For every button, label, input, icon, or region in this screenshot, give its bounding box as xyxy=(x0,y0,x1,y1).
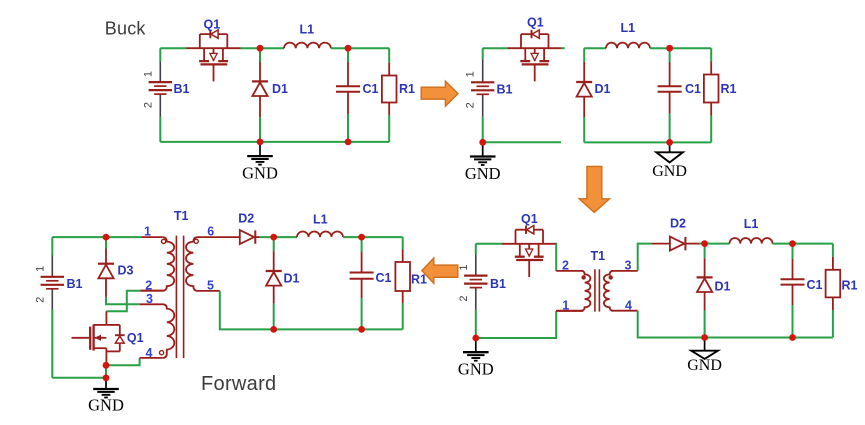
diode D2 xyxy=(240,230,256,244)
transistor Q1 xyxy=(502,226,556,278)
capacitor C1 xyxy=(781,279,805,284)
svg-text:3: 3 xyxy=(625,258,632,272)
node OUT2 junction xyxy=(789,240,796,247)
wire node SW to D1 xyxy=(259,48,261,61)
battery B1 xyxy=(41,256,64,310)
svg-text:B1: B1 xyxy=(490,277,506,291)
svg-text:GND: GND xyxy=(652,163,687,180)
capacitor C1 top lead xyxy=(347,62,349,86)
resistor R1 top lead xyxy=(388,63,390,76)
phase dot primary xyxy=(581,275,585,279)
wire source to pin 4 xyxy=(106,358,140,365)
resistor R1 xyxy=(395,262,410,291)
wire right rail bottom xyxy=(388,115,390,141)
wire C1 top connection xyxy=(669,48,671,62)
svg-text:Q1: Q1 xyxy=(127,331,144,345)
svg-text:C1: C1 xyxy=(376,271,392,285)
svg-text:D2: D2 xyxy=(238,211,254,225)
node SW junction xyxy=(257,45,264,52)
battery B1 xyxy=(149,61,172,116)
diode D2 cathode lead xyxy=(255,236,259,238)
resistor R1 xyxy=(826,270,841,298)
svg-text:Q1: Q1 xyxy=(521,212,538,226)
resistor R1 bottom lead xyxy=(832,297,834,310)
capacitor C1 xyxy=(336,86,360,91)
wire D2 to node SW3 xyxy=(260,236,297,238)
svg-text:B1: B1 xyxy=(497,83,513,97)
wire D1 to bottom rail 3 xyxy=(273,304,275,330)
wire output-half right rail bottom xyxy=(710,116,712,143)
svg-text:1: 1 xyxy=(144,225,151,239)
svg-text:1: 1 xyxy=(458,265,470,271)
wire L1 to node OUT3 xyxy=(343,236,403,238)
pin 1 lead xyxy=(141,236,162,238)
wire node OUT to C1 xyxy=(347,48,349,62)
junction source-half ground xyxy=(479,139,486,146)
wire C1 to bottom rail 3 xyxy=(361,298,363,329)
diode D1 xyxy=(266,271,282,286)
inductor L1 xyxy=(297,232,343,238)
svg-text:L1: L1 xyxy=(313,212,328,226)
capacitor C1 top lead xyxy=(669,62,671,86)
resistor R1 top lead xyxy=(832,257,834,270)
inductor L1 xyxy=(730,238,773,244)
svg-text:Forward: Forward xyxy=(201,373,276,395)
pin 1 lead xyxy=(556,310,583,312)
inductor L1 xyxy=(284,43,331,49)
svg-text:4: 4 xyxy=(625,299,632,313)
svg-text:GND: GND xyxy=(88,396,124,415)
wire forward right rail bottom xyxy=(402,303,404,329)
wire left rail bottom xyxy=(159,117,161,142)
diode D2 xyxy=(670,237,686,251)
diode D1 top lead xyxy=(273,251,275,270)
battery B1 xyxy=(464,255,487,310)
diode D3 bottom lead xyxy=(105,278,107,297)
diode D1 bottom lead xyxy=(273,285,275,303)
node SW2 junction xyxy=(701,240,708,247)
ground GND secondary xyxy=(691,338,718,359)
svg-text:B1: B1 xyxy=(67,277,83,291)
ground GND output half xyxy=(656,142,683,162)
wire source to ground node xyxy=(105,365,107,378)
wire forward left rail top xyxy=(51,237,53,255)
diode D1 xyxy=(697,277,713,292)
wire forward left rail bottom xyxy=(51,310,53,378)
diode D3 top lead xyxy=(105,249,107,263)
pin 4 phase circle xyxy=(160,351,164,355)
wire pin 5 to bottom rail xyxy=(220,291,403,330)
svg-text:C1: C1 xyxy=(685,82,701,96)
wire C1 to bottom rail xyxy=(792,305,794,338)
svg-text:D1: D1 xyxy=(284,271,300,285)
wire D2 to node SW2 xyxy=(700,243,730,245)
junction C1 bottom 2 xyxy=(789,334,796,341)
svg-text:Q1: Q1 xyxy=(527,16,544,30)
wire node OUT2 to C1 xyxy=(792,244,794,259)
junction D1 bottom 3 xyxy=(270,326,277,333)
svg-text:2: 2 xyxy=(458,296,470,302)
wire pin 3 to D2 xyxy=(638,244,652,271)
svg-text:2: 2 xyxy=(465,102,477,108)
junction D3 top xyxy=(103,234,110,241)
wire output-half right rail top xyxy=(710,48,712,61)
svg-text:B1: B1 xyxy=(174,82,190,96)
transistor Q1 drain lead xyxy=(105,311,107,325)
wire forward right rail top xyxy=(402,237,404,249)
wire top-left rail to Q1 xyxy=(160,47,187,49)
wire primary left rail bottom xyxy=(475,310,477,339)
wire D1 to bottom rail xyxy=(704,311,706,338)
battery B1 xyxy=(471,59,494,117)
svg-text:Buck: Buck xyxy=(105,19,147,39)
wire L1 to output node xyxy=(331,47,389,49)
wire output-half left rail top xyxy=(583,48,585,62)
wire secondary right rail bottom xyxy=(832,310,834,338)
transformer T1 secondary winding xyxy=(604,271,613,311)
svg-text:2: 2 xyxy=(34,297,46,303)
diode D3 xyxy=(98,264,114,279)
pin 3 lead xyxy=(140,303,163,305)
resistor R1 xyxy=(704,75,719,103)
junction C1 bottom xyxy=(345,139,352,146)
wire source-half bottom stub xyxy=(483,141,561,143)
capacitor C1 bottom lead xyxy=(792,285,794,305)
pin 4 lead xyxy=(140,357,163,359)
svg-text:D1: D1 xyxy=(595,82,611,96)
wire right rail top xyxy=(388,48,390,63)
wire Q1 right stub xyxy=(562,47,565,49)
svg-text:1: 1 xyxy=(465,71,477,77)
svg-text:GND: GND xyxy=(687,357,722,374)
transformer T1 core xyxy=(176,236,183,359)
pin 1 phase circle xyxy=(162,239,166,243)
wire Q1 to pin 2 xyxy=(555,244,558,271)
junction output ground xyxy=(666,139,673,146)
capacitor C1 top lead xyxy=(792,259,794,279)
transistor Q1 xyxy=(72,325,125,352)
junction source node xyxy=(103,362,110,369)
wire node OUT3 to C1 xyxy=(361,237,363,252)
svg-text:R1: R1 xyxy=(399,82,415,96)
capacitor C1 xyxy=(350,273,374,279)
node output junction top xyxy=(666,45,673,52)
transformer T1 winding 3-4 xyxy=(162,304,174,358)
wire pin 2 to drain xyxy=(106,291,140,312)
svg-text:GND: GND xyxy=(458,360,494,379)
svg-text:Q1: Q1 xyxy=(204,18,221,32)
wire output-half left rail bottom xyxy=(583,117,585,142)
resistor R1 bottom lead xyxy=(710,103,712,116)
transistor Q1 source lead xyxy=(105,348,107,365)
svg-text:D1: D1 xyxy=(715,279,731,293)
svg-text:4: 4 xyxy=(146,346,153,360)
transistor Q1 xyxy=(187,30,241,82)
junction forward ground xyxy=(103,374,110,381)
pin 3 lead xyxy=(611,270,638,272)
svg-text:5: 5 xyxy=(207,278,214,292)
svg-text:D2: D2 xyxy=(670,217,686,231)
resistor R1 xyxy=(382,76,397,103)
wire primary bottom to pin 1 xyxy=(476,311,556,338)
wire bottom rail xyxy=(160,141,389,143)
wire output-half top rail left xyxy=(584,47,606,49)
wire C1 to bottom rail xyxy=(347,114,349,142)
svg-text:R1: R1 xyxy=(721,82,737,96)
pin 2 lead xyxy=(556,270,583,272)
wire forward bottom rail xyxy=(52,377,106,379)
resistor R1 bottom lead xyxy=(402,291,404,303)
wire pin 4 to bottom rail xyxy=(638,311,833,338)
ground GND primary xyxy=(463,338,489,361)
diode D1 top lead xyxy=(583,62,585,81)
svg-text:D3: D3 xyxy=(118,263,134,277)
wire source-half top rail xyxy=(483,47,508,49)
wire D1 to bottom rail xyxy=(259,117,261,142)
diode D1 top lead xyxy=(259,62,261,81)
svg-text:C1: C1 xyxy=(807,278,823,292)
wire node SW3 to D1 xyxy=(273,237,275,251)
junction primary ground xyxy=(472,335,479,342)
svg-text:3: 3 xyxy=(146,292,153,306)
wire source-half left rail bottom xyxy=(482,117,484,143)
svg-text:1: 1 xyxy=(34,266,46,272)
svg-text:GND: GND xyxy=(465,164,501,183)
wire output-half bottom rail xyxy=(584,141,711,143)
svg-text:R1: R1 xyxy=(411,273,427,287)
wire forward top rail xyxy=(52,236,141,238)
diode D1 xyxy=(252,81,268,96)
svg-text:L1: L1 xyxy=(621,21,636,35)
diode D1 top lead xyxy=(704,258,706,276)
inductor L1 xyxy=(606,43,650,49)
ground GND source half xyxy=(470,142,496,165)
svg-text:L1: L1 xyxy=(744,217,759,231)
pin 1 lead to winding xyxy=(556,310,583,312)
capacitor C1 top lead xyxy=(361,252,363,273)
diode D1 bottom lead xyxy=(583,96,585,117)
svg-text:GND: GND xyxy=(242,164,278,183)
transformer T1 core xyxy=(595,269,600,311)
diode D1 bottom lead xyxy=(259,96,261,117)
svg-text:R1: R1 xyxy=(842,278,858,292)
ground GND buck xyxy=(247,142,273,165)
junction D1 bottom xyxy=(257,139,264,146)
pin 6 phase circle xyxy=(194,239,198,243)
svg-text:2: 2 xyxy=(142,102,154,108)
wire left rail top xyxy=(159,48,161,61)
wire L1 to output node xyxy=(650,47,711,49)
wire C1 bottom connection xyxy=(669,114,671,143)
wire D3 to pin 3 xyxy=(106,297,140,304)
diode D1 bottom lead xyxy=(704,292,706,311)
wire Q1 to node SW xyxy=(241,47,285,49)
capacitor C1 bottom lead xyxy=(361,279,363,298)
diode D2 anode lead xyxy=(651,243,670,245)
node OUT junction xyxy=(345,45,352,52)
pin 2 lead xyxy=(140,290,163,292)
arrow right xyxy=(421,81,458,106)
capacitor C1 bottom lead xyxy=(669,92,671,114)
svg-text:T1: T1 xyxy=(591,249,606,263)
junction C1 bottom 3 xyxy=(358,326,365,333)
svg-text:L1: L1 xyxy=(300,23,315,37)
phase dot secondary xyxy=(609,275,613,279)
transistor Q1 xyxy=(508,30,562,82)
svg-text:C1: C1 xyxy=(363,82,379,96)
resistor R1 top lead xyxy=(402,250,404,263)
ground GND forward xyxy=(93,378,119,398)
wire node SW2 to D1 xyxy=(704,244,706,259)
capacitor C1 bottom lead xyxy=(347,92,349,114)
svg-text:D1: D1 xyxy=(272,82,288,96)
pin 4 lead xyxy=(611,310,638,312)
arrow left xyxy=(422,258,458,283)
node SW3 junction xyxy=(270,234,277,241)
wire primary left rail top xyxy=(475,244,477,255)
svg-text:T1: T1 xyxy=(174,209,189,223)
wire source-half left rail top xyxy=(482,48,484,59)
arrow down xyxy=(579,166,609,212)
capacitor C1 xyxy=(658,86,682,91)
diode D1 xyxy=(576,82,592,97)
transformer T1 primary winding xyxy=(581,271,590,311)
diode D2 cathode lead xyxy=(686,243,700,245)
resistor R1 top lead xyxy=(710,62,712,75)
wire L1 to node OUT2 xyxy=(773,243,833,245)
resistor R1 bottom lead xyxy=(388,103,390,116)
wire secondary right rail top xyxy=(832,244,834,257)
wire D3 top connection xyxy=(105,237,107,248)
junction D1 bottom 2 xyxy=(701,334,708,341)
svg-text:6: 6 xyxy=(207,225,214,239)
svg-text:2: 2 xyxy=(562,258,569,272)
transformer T1 winding 1-2 xyxy=(140,237,174,291)
transformer T1 winding 6-5 xyxy=(186,237,240,291)
node OUT3 junction xyxy=(358,234,365,241)
wire primary top rail xyxy=(476,243,504,245)
svg-text:1: 1 xyxy=(142,71,154,77)
